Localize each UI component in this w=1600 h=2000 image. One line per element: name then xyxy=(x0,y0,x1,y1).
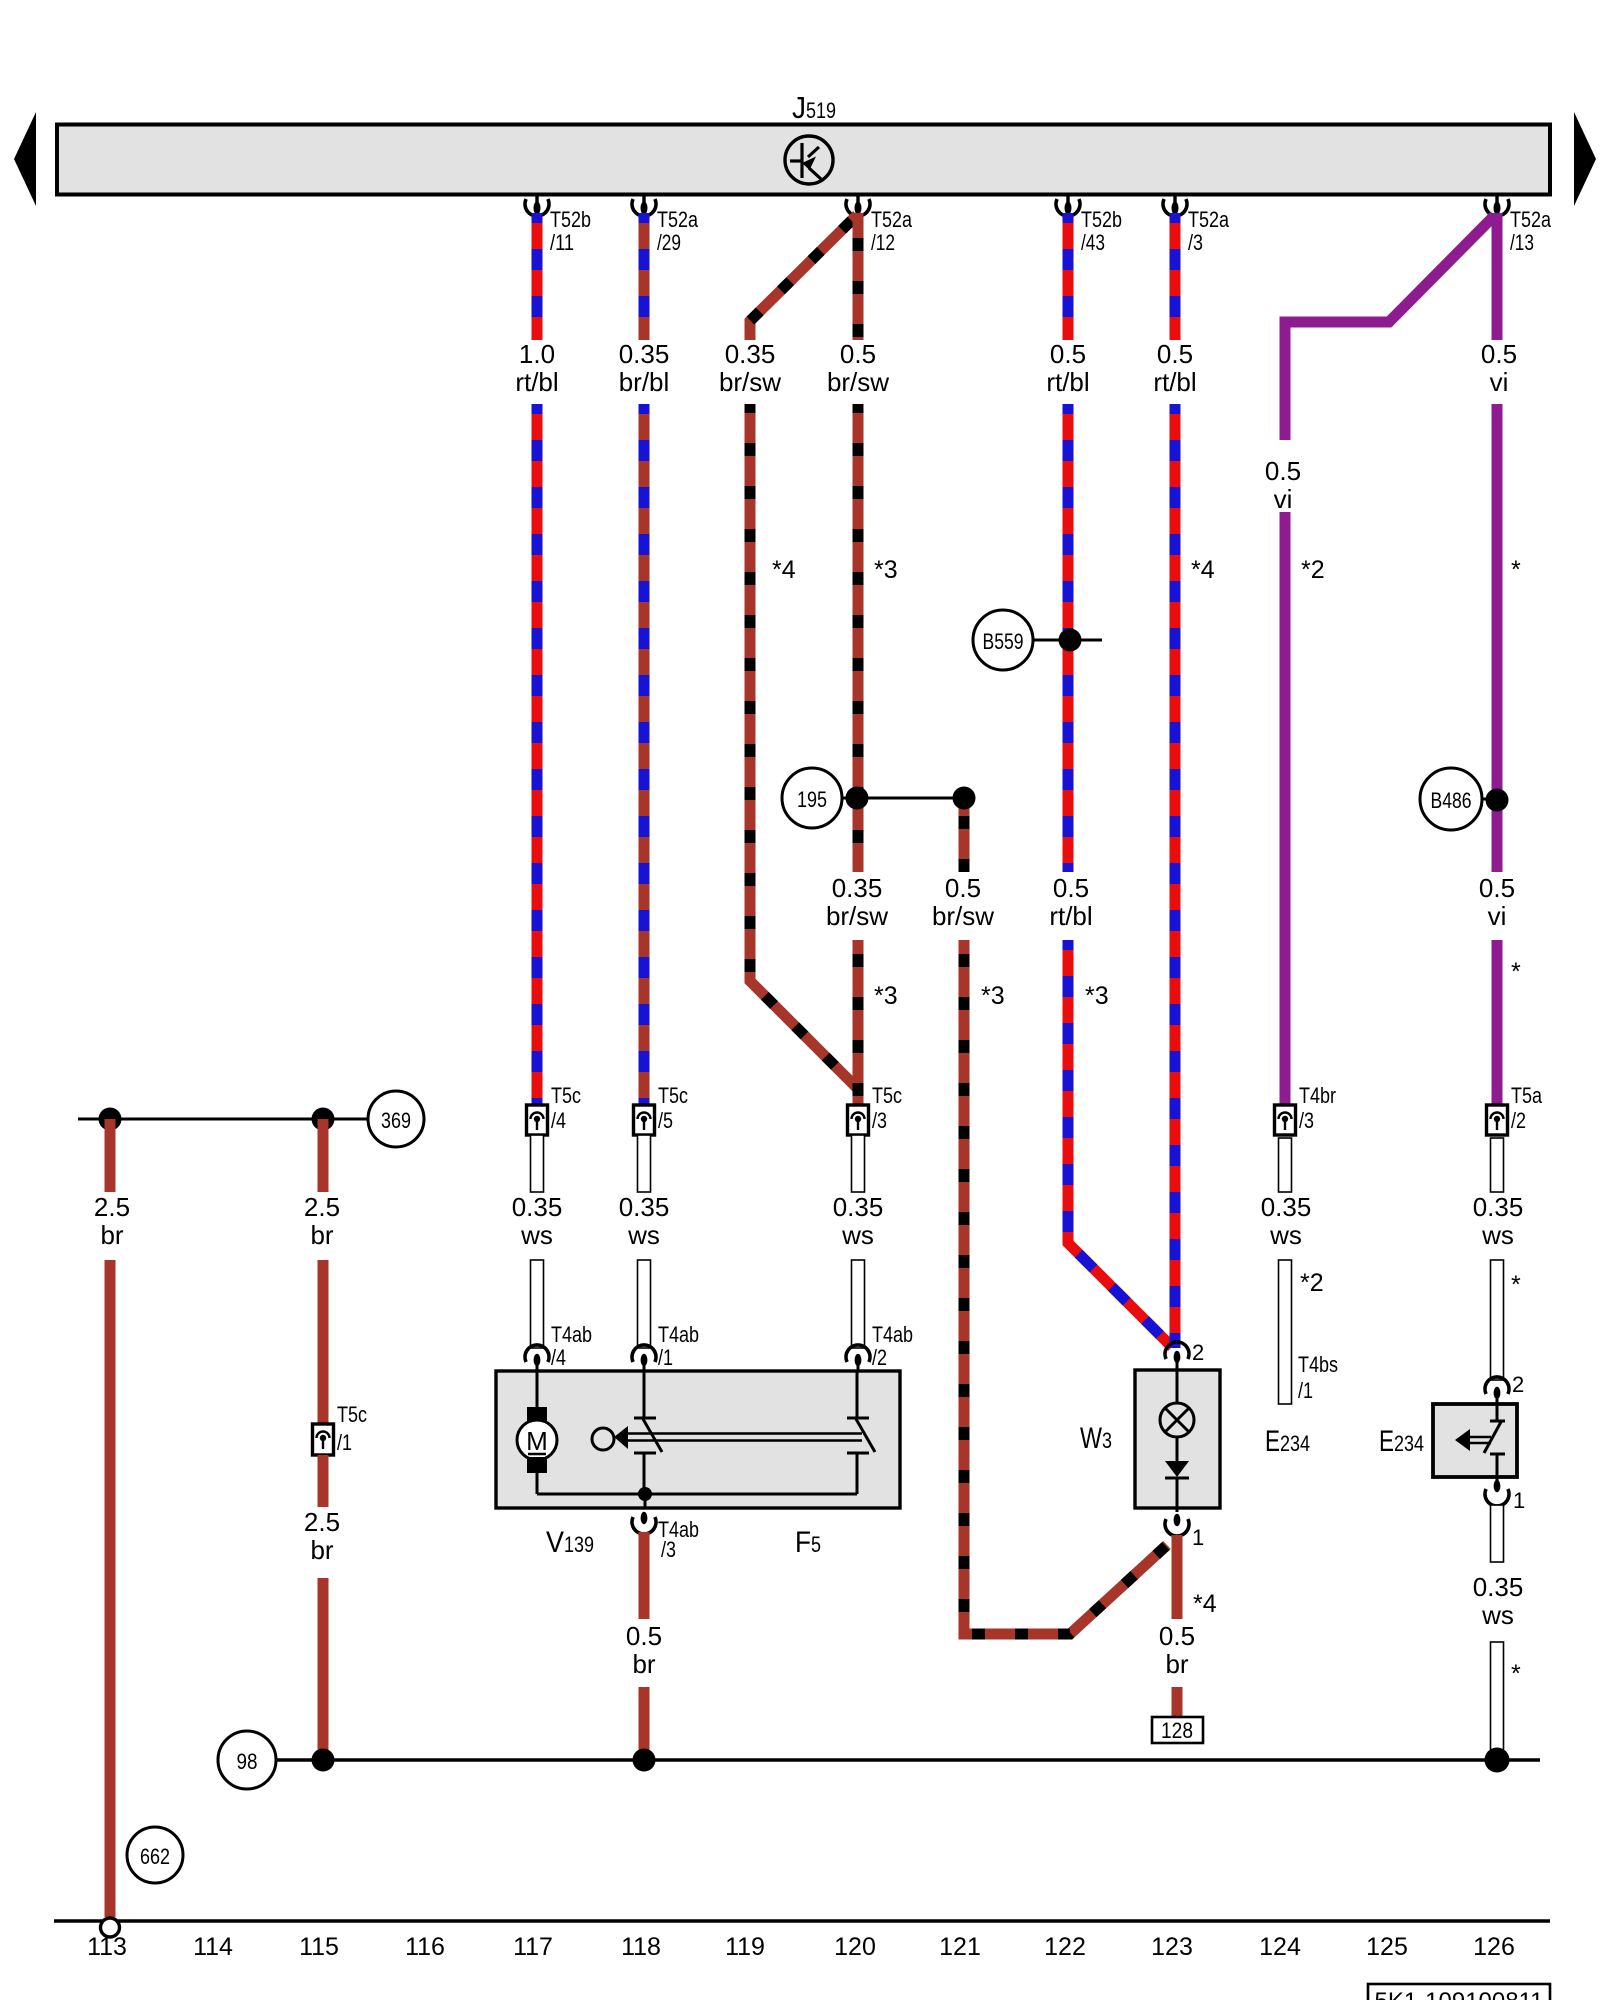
node label circle B559 xyxy=(973,610,1033,670)
label 0.35 br/sw xyxy=(719,339,781,397)
label 0.35 ws below E234 xyxy=(1473,1572,1524,1630)
asterisk *3 on spur xyxy=(981,982,1005,1010)
svg-text:/1: /1 xyxy=(658,1345,673,1370)
label 2.5 br left xyxy=(94,1192,130,1250)
svg-text:V139: V139 xyxy=(546,1526,594,1559)
drawing number box 5K1-109100811 xyxy=(1368,1984,1550,2000)
wire 0.5 vi lower segment to T5a/2 xyxy=(1492,940,1503,1105)
data bus coupling symbol in J519 xyxy=(785,136,833,184)
svg-text:B486: B486 xyxy=(1431,788,1472,813)
svg-text:0.5: 0.5 xyxy=(1050,339,1086,369)
svg-text:T4ab: T4ab xyxy=(551,1322,592,1347)
svg-text:rt/bl: rt/bl xyxy=(1153,367,1196,397)
svg-text:br/sw: br/sw xyxy=(719,367,781,397)
svg-text:W3: W3 xyxy=(1080,1422,1112,1455)
svg-text:0.5: 0.5 xyxy=(1479,873,1515,903)
label 2.5 br right xyxy=(304,1192,340,1250)
svg-text:B559: B559 xyxy=(983,629,1024,654)
svg-text:br/sw: br/sw xyxy=(932,901,994,931)
grid number 122 xyxy=(1044,1933,1086,1961)
pin 2 of W3 xyxy=(1165,1340,1204,1365)
connector T4ab/1 xyxy=(632,1322,699,1372)
svg-text:*: * xyxy=(1511,1271,1521,1299)
wire 2.5 br right upper segment xyxy=(318,1119,329,1192)
ground point box 128 xyxy=(1152,1717,1203,1743)
label 0.35 ws col124 xyxy=(1261,1192,1312,1250)
wire 2.5 br segment to rail 98 xyxy=(318,1578,329,1760)
motor V139 symbol xyxy=(517,1372,557,1494)
svg-text:1.0: 1.0 xyxy=(519,339,555,369)
asterisk *2 on ws wire col124 xyxy=(1300,1269,1324,1297)
label T4bs/1 xyxy=(1298,1352,1338,1403)
label 0.35 br/sw below node 195 xyxy=(826,873,888,931)
svg-text:br: br xyxy=(310,1220,333,1250)
asterisk *3 on rt/bl wire xyxy=(1085,982,1109,1010)
svg-text:125: 125 xyxy=(1366,1933,1408,1961)
svg-text:ws: ws xyxy=(1269,1220,1302,1250)
svg-text:*4: *4 xyxy=(1191,556,1215,584)
svg-text:2.5: 2.5 xyxy=(94,1192,130,1222)
svg-text:T5c: T5c xyxy=(551,1083,581,1108)
svg-text:114: 114 xyxy=(193,1933,233,1961)
svg-text:0.5: 0.5 xyxy=(1157,339,1193,369)
pin 2 of switch E234 xyxy=(1485,1372,1524,1399)
svg-text:ws: ws xyxy=(841,1220,874,1250)
grid number 118 xyxy=(621,1933,661,1961)
wire 0.5 vi middle segment through node B486 xyxy=(1492,404,1503,872)
wire 0.5 br/sw middle segment to node 195 xyxy=(853,404,864,872)
wire 0.35 ws below T5c/5 xyxy=(638,1135,651,1192)
svg-text:*: * xyxy=(1511,1660,1521,1688)
svg-text:0.35: 0.35 xyxy=(1261,1192,1312,1222)
svg-text:0.5: 0.5 xyxy=(1159,1621,1195,1651)
svg-text:120: 120 xyxy=(834,1933,876,1961)
label 0.35 ws col120 xyxy=(833,1192,884,1250)
svg-text:2: 2 xyxy=(1512,1372,1524,1397)
svg-text:T4bs: T4bs xyxy=(1298,1352,1338,1377)
svg-text:T5c: T5c xyxy=(872,1083,902,1108)
svg-text:T5c: T5c xyxy=(658,1083,688,1108)
switch contact F5 middle xyxy=(634,1372,662,1494)
svg-text:*3: *3 xyxy=(874,556,898,584)
svg-text:ws: ws xyxy=(1481,1600,1514,1630)
wire 0.35 ws below E234 pin 1 xyxy=(1491,1505,1504,1562)
wire 0.35 ws to T4bs/1 and E234 xyxy=(1279,1260,1292,1404)
control unit bus bar J519 xyxy=(57,125,1550,195)
svg-text:T52a: T52a xyxy=(1188,207,1230,232)
svg-text:0.5: 0.5 xyxy=(1481,339,1517,369)
connector pin T52a/3 on J519 xyxy=(1163,196,1230,255)
pin 1 of W3 xyxy=(1165,1514,1204,1550)
wire 0.5 vi branch diagonal from T52a/13 xyxy=(1285,216,1494,440)
wire 0.5 rt/bl lower segment diagonal to W3 pin 2 xyxy=(1068,940,1172,1347)
grid number 121 xyxy=(939,1933,981,1961)
internal junction dot F5 xyxy=(638,1487,652,1509)
svg-text:0.35: 0.35 xyxy=(833,1192,884,1222)
svg-text:/5: /5 xyxy=(658,1108,673,1133)
label 0.35 ws col117 xyxy=(512,1192,563,1250)
wire 0.35 ws to E234 pin 2 xyxy=(1491,1260,1504,1380)
wire 0.5 br below W3 xyxy=(1172,1535,1183,1619)
svg-text:116: 116 xyxy=(405,1933,445,1961)
svg-text:115: 115 xyxy=(299,1933,339,1961)
svg-text:/3: /3 xyxy=(1299,1108,1314,1133)
svg-text:/13: /13 xyxy=(1510,230,1534,255)
svg-text:2.5: 2.5 xyxy=(304,1192,340,1222)
lamp component box W3 xyxy=(1135,1370,1220,1508)
svg-text:2: 2 xyxy=(1192,1340,1204,1365)
label 0.5 br/sw spur xyxy=(932,873,994,931)
asterisk *2 on vi branch xyxy=(1301,556,1325,584)
label F5 xyxy=(795,1526,821,1559)
bus continuation arrow left xyxy=(14,112,36,206)
wiper park switch link F5 xyxy=(592,1426,862,1450)
label 2.5 br lower xyxy=(304,1507,340,1565)
connector T5c/4 xyxy=(527,1083,582,1135)
asterisk * on ws wire col126 xyxy=(1511,1271,1521,1299)
svg-text:0.35: 0.35 xyxy=(619,339,670,369)
wire 0.5 br/sw spur long segment to W3 pin 1 xyxy=(964,940,1167,1634)
svg-text:128: 128 xyxy=(1161,1718,1193,1743)
grid number 120 xyxy=(834,1933,876,1961)
svg-text:/1: /1 xyxy=(1298,1378,1313,1403)
wire 2.5 br left upper segment xyxy=(105,1119,116,1192)
svg-text:ws: ws xyxy=(520,1220,553,1250)
label 0.5 br/sw xyxy=(827,339,889,397)
connector T4ab/2 xyxy=(846,1322,913,1372)
svg-text:*: * xyxy=(1511,556,1521,584)
svg-text:0.35: 0.35 xyxy=(1473,1572,1524,1602)
grid number 114 xyxy=(193,1933,233,1961)
label E234 left xyxy=(1265,1425,1310,1458)
wire 1.0 rt/bl from T52b/11 upper segment xyxy=(532,213,543,340)
svg-text:0.35: 0.35 xyxy=(512,1192,563,1222)
wire 0.5 rt/bl long segment to W3 pin 2 xyxy=(1170,404,1181,1348)
svg-text:*3: *3 xyxy=(981,982,1005,1010)
svg-text:br: br xyxy=(310,1535,333,1565)
svg-text:1: 1 xyxy=(1513,1488,1525,1513)
bus continuation arrow right xyxy=(1574,112,1596,206)
svg-text:E234: E234 xyxy=(1379,1425,1424,1458)
grid number 116 xyxy=(405,1933,445,1961)
pin 1 of switch E234 xyxy=(1485,1480,1525,1513)
svg-text:/2: /2 xyxy=(872,1345,887,1370)
junction dot rail 98 col126 xyxy=(1485,1748,1510,1773)
junction node B486 on vi wire xyxy=(1482,789,1509,812)
ground rail 369 xyxy=(78,1118,368,1121)
wire 2.5 br right segment to T5c/1 xyxy=(318,1260,329,1424)
switch component box E234 xyxy=(1433,1404,1517,1477)
svg-text:118: 118 xyxy=(621,1933,661,1961)
svg-text:rt/bl: rt/bl xyxy=(1049,901,1092,931)
svg-text:0.5: 0.5 xyxy=(626,1621,662,1651)
wire 0.5 rt/bl from T52b/43 upper segment xyxy=(1063,213,1074,340)
asterisk *4 below W3 xyxy=(1193,1590,1217,1618)
svg-text:/1: /1 xyxy=(337,1430,352,1455)
junction node 195 left dot xyxy=(846,787,869,810)
svg-text:369: 369 xyxy=(381,1108,411,1133)
label 0.5 vi branch xyxy=(1265,456,1301,514)
node label circle 662 xyxy=(127,1827,183,1883)
label 0.35 br/bl xyxy=(619,339,670,397)
svg-text:123: 123 xyxy=(1151,1933,1193,1961)
label J519 xyxy=(792,90,836,125)
wire 0.5 br segment to rail 98 xyxy=(639,1687,650,1760)
junction node 195 right dot xyxy=(953,787,976,810)
svg-text:0.5: 0.5 xyxy=(1053,873,1089,903)
wire 0.5 vi from T52a/13 upper segment xyxy=(1492,213,1503,340)
wire 0.35 br/bl lower segment to T5c/5 xyxy=(639,404,650,1105)
svg-text:br: br xyxy=(632,1649,655,1679)
svg-text:0.35: 0.35 xyxy=(1473,1192,1524,1222)
junction dot rail 369 left xyxy=(99,1108,122,1131)
bottom frame line xyxy=(54,1919,1550,1922)
connector pin T52a/13 on J519 xyxy=(1485,196,1552,255)
label 0.5 vi right xyxy=(1481,339,1517,397)
wire 0.5 br below T4ab/3 xyxy=(639,1532,650,1619)
wire 0.35 br/bl from T52a/29 upper segment xyxy=(639,213,650,340)
lamp symbol W3 xyxy=(1160,1360,1194,1461)
grid number 117 xyxy=(513,1933,553,1961)
connector T5a/2 xyxy=(1487,1083,1543,1135)
svg-text:vi: vi xyxy=(1490,367,1509,397)
svg-text:*4: *4 xyxy=(772,556,796,584)
label 0.5 rt/bl mid xyxy=(1049,873,1092,931)
wire 0.5 br/sw spur from node 195 upper segment xyxy=(959,798,970,872)
svg-text:*3: *3 xyxy=(874,982,898,1010)
asterisk * on ws wire above rail xyxy=(1511,1660,1521,1688)
connector pin T52a/12 on J519 xyxy=(846,196,913,255)
wire 2.5 br below T5c/1 xyxy=(318,1455,329,1507)
connector pin T52a/29 on J519 xyxy=(632,196,699,255)
label V139 xyxy=(546,1526,594,1559)
wire 0.35 ws below T5c/4 xyxy=(531,1135,544,1192)
grid number 113 xyxy=(87,1933,127,1961)
connector T4ab/4 xyxy=(525,1322,592,1372)
svg-text:ws: ws xyxy=(627,1220,660,1250)
grid number 124 xyxy=(1259,1933,1301,1961)
wire 0.35 ws segment to rail 98 xyxy=(1491,1642,1504,1760)
junction dot rail 369 right xyxy=(312,1108,335,1131)
svg-text:F5: F5 xyxy=(795,1526,821,1559)
svg-text:/12: /12 xyxy=(871,230,895,255)
svg-text:0.35: 0.35 xyxy=(619,1192,670,1222)
junction node B559 on rt/bl wire xyxy=(1059,629,1082,652)
svg-text:/3: /3 xyxy=(661,1537,676,1562)
svg-text:117: 117 xyxy=(513,1933,553,1961)
svg-text:1: 1 xyxy=(1192,1525,1204,1550)
svg-text:T52a: T52a xyxy=(871,207,913,232)
svg-text:J519: J519 xyxy=(792,90,836,125)
svg-text:98: 98 xyxy=(237,1749,258,1774)
asterisk *4 on br/sw wire xyxy=(772,556,796,584)
svg-text:br: br xyxy=(100,1220,123,1250)
label 0.5 br col123 xyxy=(1159,1621,1195,1679)
svg-text:0.35: 0.35 xyxy=(725,339,776,369)
svg-text:T52b: T52b xyxy=(550,207,591,232)
wire 0.35 br/sw branch from T52a/12 diagonal upper segment xyxy=(750,215,857,340)
svg-text:vi: vi xyxy=(1274,484,1293,514)
grid number 123 xyxy=(1151,1933,1193,1961)
connector pin T52b/43 on J519 xyxy=(1056,196,1122,255)
svg-text:br/sw: br/sw xyxy=(827,367,889,397)
node label circle 195 xyxy=(782,768,842,828)
svg-text:0.35: 0.35 xyxy=(832,873,883,903)
svg-text:*: * xyxy=(1511,958,1521,986)
svg-text:0.5: 0.5 xyxy=(1265,456,1301,486)
diode symbol in W3 xyxy=(1165,1461,1189,1512)
svg-text:121: 121 xyxy=(939,1933,981,1961)
ground terminal 662 open circle xyxy=(101,1918,120,1937)
svg-text:0.5: 0.5 xyxy=(945,873,981,903)
wire 0.35 ws below T5c/3 xyxy=(852,1135,865,1192)
asterisk *4 on T52a/3 wire xyxy=(1191,556,1215,584)
label 0.35 ws col126 xyxy=(1473,1192,1524,1250)
wire 2.5 br left long segment to terminal 662 xyxy=(105,1260,116,1917)
wire stub at node B559 xyxy=(1033,639,1102,642)
junction dot rail 98 col115 xyxy=(312,1749,335,1772)
svg-text:/11: /11 xyxy=(550,230,574,255)
svg-text:rt/bl: rt/bl xyxy=(1046,367,1089,397)
svg-text:113: 113 xyxy=(87,1933,127,1961)
node label circle 98 xyxy=(218,1731,276,1789)
node label circle B486 xyxy=(1420,768,1482,830)
grid number 125 xyxy=(1366,1933,1408,1961)
wire 0.5 br stub to ground point 128 xyxy=(1172,1687,1183,1719)
label 0.35 ws col118 xyxy=(619,1192,670,1250)
connector T5c/3 xyxy=(848,1083,903,1135)
svg-text:E234: E234 xyxy=(1265,1425,1310,1458)
component box V139 / F5 xyxy=(496,1371,900,1508)
asterisk *3 on 0.5 br/sw wire xyxy=(874,556,898,584)
node label circle 369 xyxy=(368,1091,424,1147)
wire link at node 195 xyxy=(842,797,964,800)
svg-text:5K1-109100811: 5K1-109100811 xyxy=(1374,1988,1543,2000)
connector T5c/1 xyxy=(313,1402,368,1455)
connector T4ab/3 below F5 xyxy=(632,1512,699,1562)
svg-text:/4: /4 xyxy=(551,1345,566,1370)
svg-text:rt/bl: rt/bl xyxy=(515,367,558,397)
svg-text:*2: *2 xyxy=(1301,556,1325,584)
wire 0.35 ws to T4ab/1 xyxy=(638,1260,651,1348)
svg-text:T4ab: T4ab xyxy=(658,1322,699,1347)
svg-text:122: 122 xyxy=(1044,1933,1086,1961)
svg-text:*2: *2 xyxy=(1300,1269,1324,1297)
svg-text:/29: /29 xyxy=(657,230,681,255)
asterisk * on vi wire upper xyxy=(1511,556,1521,584)
wire 0.35 ws to T4ab/2 xyxy=(852,1260,865,1348)
wire 1.0 rt/bl lower segment to T5c/4 xyxy=(532,404,543,1105)
svg-text:*3: *3 xyxy=(1085,982,1109,1010)
svg-text:/3: /3 xyxy=(1188,230,1203,255)
svg-text:T4br: T4br xyxy=(1299,1083,1336,1108)
svg-text:2.5: 2.5 xyxy=(304,1507,340,1537)
wire 0.5 rt/bl from T52a/3 upper segment xyxy=(1170,213,1181,340)
svg-text:/3: /3 xyxy=(872,1108,887,1133)
switch contact symbol in E234 xyxy=(1455,1399,1505,1482)
asterisk * on vi wire below B486 xyxy=(1511,958,1521,986)
label 0.5 rt/bl right xyxy=(1153,339,1196,397)
svg-text:124: 124 xyxy=(1259,1933,1301,1961)
svg-text:119: 119 xyxy=(725,1933,765,1961)
internal bus line F5 xyxy=(537,1493,857,1496)
grid number 126 xyxy=(1473,1933,1515,1961)
wire 0.5 br/sw from T52a/12 upper segment xyxy=(853,213,864,340)
svg-text:T52a: T52a xyxy=(657,207,699,232)
svg-text:/43: /43 xyxy=(1081,230,1105,255)
svg-text:M: M xyxy=(526,1426,548,1456)
svg-text:*4: *4 xyxy=(1193,1590,1217,1618)
label 1.0 rt/bl xyxy=(515,339,558,397)
svg-text:126: 126 xyxy=(1473,1933,1515,1961)
svg-text:/2: /2 xyxy=(1511,1108,1526,1133)
svg-text:662: 662 xyxy=(140,1844,170,1869)
connector pin T52b/11 on J519 xyxy=(525,196,591,255)
switch contact F5 right xyxy=(847,1372,875,1494)
svg-text:T5a: T5a xyxy=(1511,1083,1543,1108)
label E234 right xyxy=(1379,1425,1424,1458)
wire 0.35 ws to T4ab/4 xyxy=(531,1260,544,1348)
wire 0.5 rt/bl middle segment through node B559 xyxy=(1063,404,1074,872)
svg-text:br/bl: br/bl xyxy=(619,367,670,397)
svg-text:vi: vi xyxy=(1488,901,1507,931)
wire 0.35 ws below T4br/3 xyxy=(1279,1138,1292,1192)
ground rail 98 xyxy=(276,1758,1540,1761)
svg-text:T4ab: T4ab xyxy=(872,1322,913,1347)
label 0.5 br col118 xyxy=(626,1621,662,1679)
wire 0.35 br/sw lowest segment to T5c/3 xyxy=(853,940,864,1105)
svg-text:/4: /4 xyxy=(551,1108,566,1133)
svg-text:T52b: T52b xyxy=(1081,207,1122,232)
svg-text:br: br xyxy=(1165,1649,1188,1679)
svg-text:ws: ws xyxy=(1481,1220,1514,1250)
label 0.5 rt/bl xyxy=(1046,339,1089,397)
connector T4br/3 xyxy=(1275,1083,1337,1135)
svg-text:T52a: T52a xyxy=(1510,207,1552,232)
wire 0.35 ws below T5a/2 xyxy=(1491,1138,1504,1192)
wire 0.5 vi branch lower segment to T4br/3 xyxy=(1280,512,1291,1105)
grid number 115 xyxy=(299,1933,339,1961)
svg-text:T5c: T5c xyxy=(337,1402,367,1427)
svg-text:0.5: 0.5 xyxy=(840,339,876,369)
label W3 xyxy=(1080,1422,1112,1455)
grid number 119 xyxy=(725,1933,765,1961)
asterisk *3 below label xyxy=(874,982,898,1010)
junction dot rail 98 col118 xyxy=(633,1749,656,1772)
svg-text:195: 195 xyxy=(797,787,827,812)
svg-text:br/sw: br/sw xyxy=(826,901,888,931)
wire 0.35 br/sw lower segment diagonal to T5c/3 xyxy=(750,404,858,1105)
label 0.5 vi mid xyxy=(1479,873,1515,931)
connector T5c/5 xyxy=(634,1083,689,1135)
